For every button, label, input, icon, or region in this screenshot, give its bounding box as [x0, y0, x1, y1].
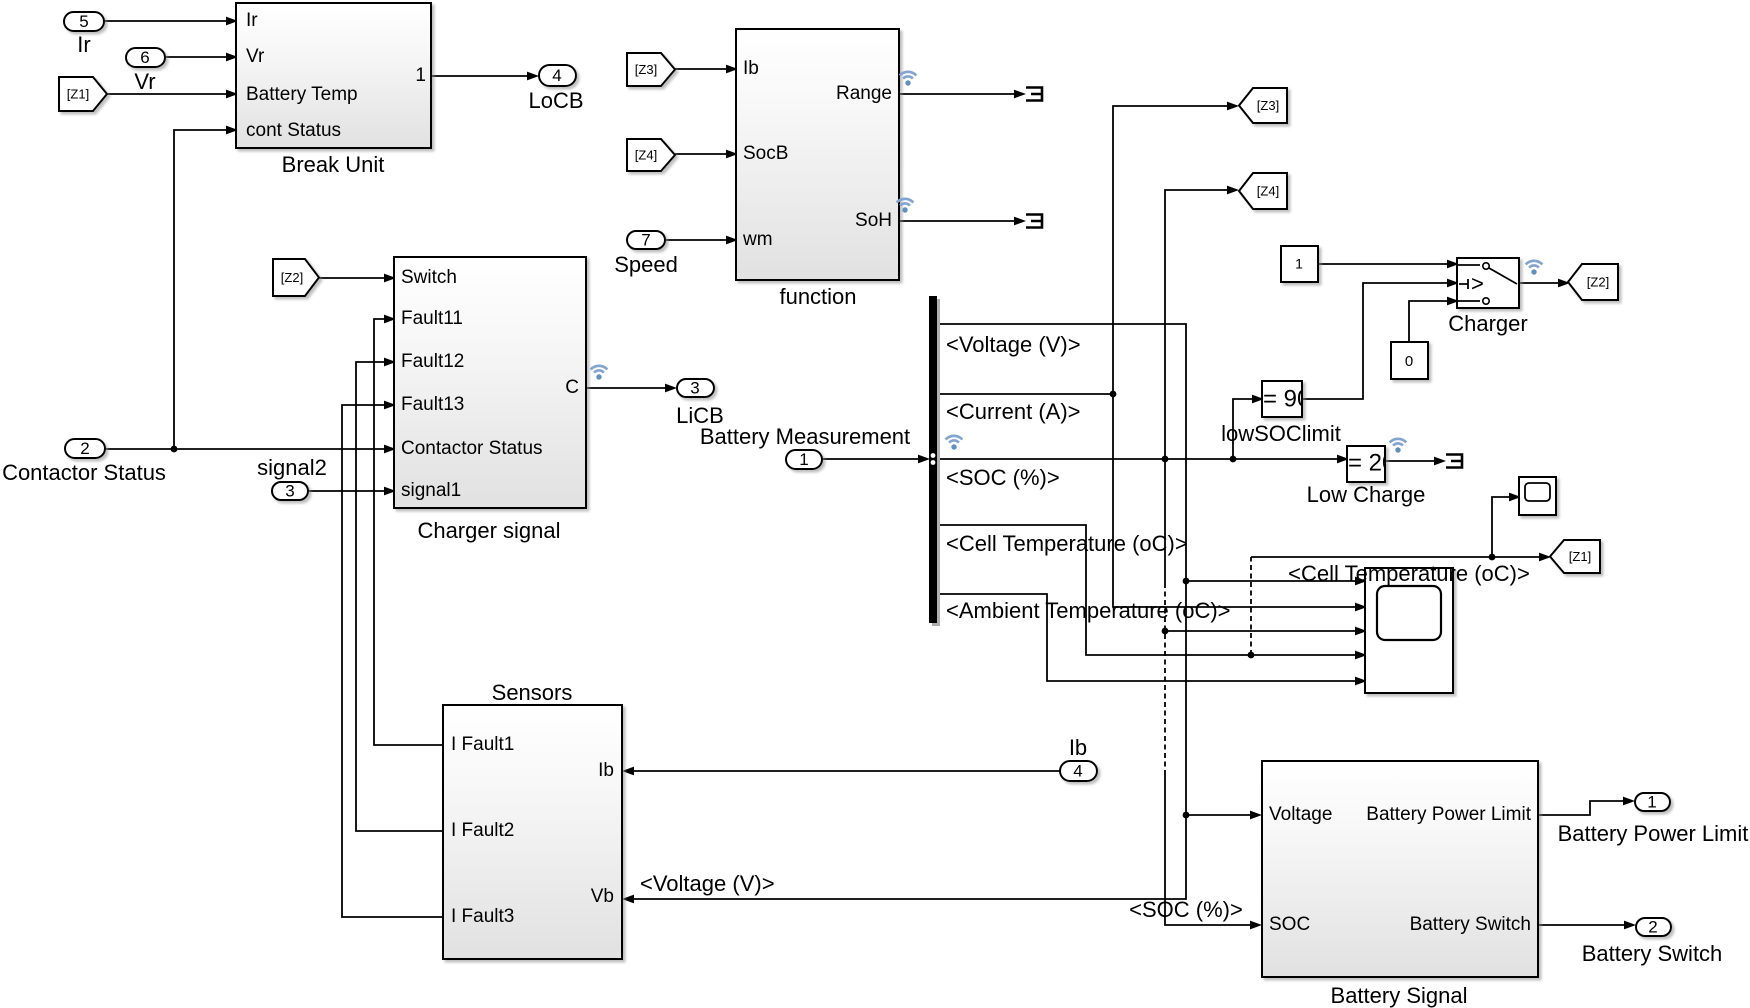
svg-text:5: 5	[79, 12, 88, 31]
svg-text:1: 1	[415, 65, 426, 86]
svg-text:I Fault1: I Fault1	[451, 734, 514, 755]
svg-text:<Current (A)>: <Current (A)>	[946, 399, 1081, 424]
logging badge function Range	[900, 72, 917, 86]
goto tag [Z1]	[1550, 540, 1600, 573]
logging badge Low Charge	[1390, 439, 1407, 453]
wire From[Z3] to function Ib	[675, 65, 738, 74]
svg-text:signal2: signal2	[257, 455, 327, 480]
wire Low Charge output to terminator	[1385, 457, 1446, 466]
compare block Low Charge	[1307, 446, 1426, 507]
svg-text:Ir: Ir	[246, 10, 258, 31]
wire inport5 to Break Unit Ir	[104, 17, 238, 26]
svg-text:[Z2]: [Z2]	[1587, 274, 1609, 289]
svg-text:Charger signal: Charger signal	[417, 518, 560, 543]
wire lowSOClimit output to Charger switch input2	[1302, 279, 1459, 399]
svg-text:[Z1]: [Z1]	[1569, 549, 1591, 564]
wire SOC riser to Goto[Z4]	[1165, 186, 1239, 459]
wire From[Z4] to function SocB	[675, 150, 738, 159]
svg-text:Contactor Status: Contactor Status	[2, 460, 166, 485]
node junction SOC-Z4	[1162, 456, 1169, 463]
svg-text:1: 1	[799, 450, 808, 469]
wire bus SOC main line to Low Charge	[939, 455, 1349, 464]
svg-text:Voltage: Voltage	[1269, 804, 1332, 825]
inport 3 signal2	[257, 455, 327, 500]
wire Break Unit out to outport4 LoCB	[432, 72, 539, 81]
wire bus Cell Temperature to scope input4	[939, 525, 1367, 659]
node junction SOC-lowSOClimit	[1230, 456, 1237, 463]
svg-text:[Z3]: [Z3]	[1257, 98, 1279, 113]
node junction cont Status	[171, 446, 178, 453]
svg-text:4: 4	[1073, 761, 1082, 780]
svg-text:Ib: Ib	[1069, 735, 1087, 760]
constant block 0	[1391, 342, 1428, 379]
svg-text:SOC: SOC	[1269, 914, 1310, 935]
wire From[Z1] to Break Unit Battery Temp	[107, 90, 238, 99]
logging badge Charger signal C	[591, 366, 608, 380]
svg-text:<Voltage (V)>: <Voltage (V)>	[640, 871, 775, 896]
wire constant1 to Charger switch input1	[1318, 260, 1459, 269]
svg-text:C: C	[565, 377, 579, 398]
subsystem Break Unit	[236, 3, 431, 177]
switch block Charger	[1448, 258, 1527, 336]
svg-text:Switch: Switch	[401, 267, 457, 288]
svg-text:7: 7	[641, 230, 650, 249]
svg-text:[Z4]: [Z4]	[1257, 183, 1279, 198]
svg-text:LoCB: LoCB	[528, 88, 583, 113]
logging badge Charger switch	[1526, 261, 1543, 275]
svg-text:3: 3	[690, 378, 699, 397]
svg-text:SoH: SoH	[855, 210, 892, 231]
inport 1 Battery Measurement	[700, 424, 910, 469]
svg-text:2: 2	[80, 439, 89, 458]
svg-text:cont Status: cont Status	[246, 120, 341, 141]
svg-text:Ir: Ir	[77, 32, 90, 57]
goto tag [Z3]	[1239, 88, 1287, 123]
svg-text:Vb: Vb	[591, 886, 614, 907]
svg-text:1: 1	[1647, 792, 1656, 811]
svg-text:Battery Power Limit: Battery Power Limit	[1558, 821, 1749, 846]
svg-text:Fault12: Fault12	[401, 351, 464, 372]
svg-text:Battery Measurement: Battery Measurement	[700, 424, 910, 449]
svg-text:Battery Temp: Battery Temp	[246, 84, 358, 105]
svg-text:Low Charge: Low Charge	[1307, 482, 1426, 507]
scope small	[1519, 477, 1556, 515]
bus selector Battery Measurement	[929, 296, 940, 626]
inport 4 Ib	[1060, 735, 1097, 781]
from tag [Z4]	[627, 139, 675, 171]
goto tag [Z2]	[1568, 264, 1618, 300]
from tag [Z3]	[627, 53, 675, 86]
wire inport3 to Charger signal signal1	[308, 487, 396, 496]
svg-text:Fault13: Fault13	[401, 394, 464, 415]
inport 5 Ir	[64, 12, 104, 57]
logging badge function SoH	[897, 199, 914, 213]
inport 6 Vr	[126, 48, 165, 94]
svg-text:<Voltage (V)>: <Voltage (V)>	[946, 332, 1081, 357]
svg-text:0: 0	[1405, 353, 1413, 370]
node junction CellTemp-smallscope	[1489, 554, 1496, 561]
inport 7 Speed	[614, 230, 678, 277]
svg-text:SocB: SocB	[743, 143, 788, 164]
svg-text:4: 4	[552, 66, 561, 85]
node junction CellTemp-scope	[1248, 652, 1255, 659]
svg-text:Range: Range	[836, 83, 892, 104]
svg-text:function: function	[779, 284, 856, 309]
svg-text:1: 1	[1295, 256, 1303, 272]
svg-text:3: 3	[285, 481, 294, 500]
wire Battery Signal Battery Power Limit to outport1	[1539, 797, 1635, 815]
svg-text:= 20: = 20	[1348, 449, 1395, 476]
terminator Range	[1026, 88, 1042, 101]
svg-text:signal1: signal1	[401, 480, 461, 501]
wire inport4 Ib to Sensors Ib	[622, 767, 1060, 776]
svg-text:[Z1]: [Z1]	[67, 86, 89, 101]
wire From[Z2] to Charger signal Switch	[319, 274, 396, 283]
svg-text:[Z2]: [Z2]	[281, 270, 303, 285]
svg-text:Sensors: Sensors	[492, 680, 573, 705]
svg-text:<Cell Temperature (oC)>: <Cell Temperature (oC)>	[946, 531, 1188, 556]
wire bus Ambient Temperature to scope input5	[939, 594, 1367, 685]
svg-text:<Ambient Temperature (oC)>: <Ambient Temperature (oC)>	[946, 598, 1231, 623]
outport 2 Battery Switch	[1582, 917, 1723, 966]
svg-text:Vr: Vr	[134, 69, 155, 94]
wire SOC drop to scope and Battery Signal SOC	[1165, 459, 1367, 929]
svg-text:<SOC (%)>: <SOC (%)>	[946, 465, 1060, 490]
inport 2 Contactor Status	[2, 439, 166, 485]
wire SOC tap to lowSOClimit input	[1233, 395, 1264, 459]
subsystem function	[736, 29, 899, 309]
wire inport1 Battery Measurement to Bus Selector	[822, 455, 930, 464]
wire Cell Temperature branch to Goto[Z1] and small scope	[1251, 493, 1551, 655]
node junction SOC-scope	[1162, 628, 1169, 635]
wire inport2 Contactor Status to Charger signal	[105, 445, 396, 454]
svg-text:6: 6	[140, 48, 149, 67]
logging badge bus SOC	[946, 436, 963, 450]
svg-text:Break Unit: Break Unit	[282, 152, 385, 177]
svg-text:>: >	[1471, 271, 1484, 296]
wire function Range to terminator	[899, 90, 1026, 99]
svg-text:wm: wm	[742, 229, 773, 250]
svg-text:Battery Power Limit: Battery Power Limit	[1366, 804, 1531, 825]
wire inport6 to Break Unit Vr	[165, 53, 238, 62]
wire Sensors I Fault3 to Charger signal Fault13	[342, 401, 443, 917]
outport 3 LiCB	[676, 378, 724, 428]
compare block lowSOClimit	[1221, 381, 1341, 446]
terminator SoH	[1026, 215, 1042, 228]
svg-text:Charger: Charger	[1448, 311, 1527, 336]
outport 4 LoCB	[528, 65, 583, 113]
svg-text:Contactor Status: Contactor Status	[401, 438, 543, 459]
wire constant0 to Charger switch input3	[1409, 297, 1459, 342]
from tag [Z1]	[59, 77, 107, 111]
wire inport7 Speed to function wm	[665, 236, 738, 245]
svg-text:Battery Switch: Battery Switch	[1582, 941, 1723, 966]
subsystem Sensors	[443, 680, 622, 959]
goto tag [Z4]	[1239, 173, 1287, 209]
svg-text:Ib: Ib	[743, 58, 759, 79]
node junction Current-Z3	[1110, 391, 1117, 398]
constant block 1	[1281, 246, 1318, 282]
svg-text:Fault11: Fault11	[401, 308, 463, 329]
svg-text:2: 2	[1648, 917, 1657, 936]
scope Cell Temperature	[1365, 568, 1453, 693]
svg-text:[Z3]: [Z3]	[635, 62, 657, 77]
svg-text:<SOC (%)>: <SOC (%)>	[1129, 897, 1243, 922]
svg-text:Speed: Speed	[614, 252, 678, 277]
wire Sensors I Fault1 to Charger signal Fault11	[374, 315, 443, 745]
subsystem Charger signal	[394, 257, 586, 543]
wire Sensors I Fault2 to Charger signal Fault12	[356, 358, 443, 831]
wire bus Current branch to Goto[Z3] and scope	[939, 102, 1367, 612]
node junction Voltage-scope	[1183, 578, 1190, 585]
svg-text:<Cell Temperature (oC)>: <Cell Temperature (oC)>	[1288, 561, 1530, 586]
svg-text:[Z4]: [Z4]	[635, 147, 657, 162]
svg-text:Battery Switch: Battery Switch	[1410, 914, 1531, 935]
svg-text:Vr: Vr	[246, 46, 265, 67]
svg-text:Ib: Ib	[598, 760, 614, 781]
subsystem Battery Signal	[1262, 761, 1538, 1008]
outport 1 Battery Power Limit	[1558, 792, 1749, 846]
wire function SoH to terminator	[899, 217, 1026, 226]
svg-text:I Fault2: I Fault2	[451, 820, 514, 841]
node junction Voltage-BatterySignal	[1183, 812, 1190, 819]
wire bus Voltage branch	[622, 324, 1367, 903]
svg-text:lowSOClimit: lowSOClimit	[1221, 421, 1341, 446]
wire Charger signal C to outport3 LiCB	[586, 384, 677, 393]
svg-text:I Fault3: I Fault3	[451, 906, 514, 927]
wire Charger switch output to Goto[Z2]	[1520, 279, 1570, 288]
from tag [Z2]	[273, 259, 319, 296]
terminator Low Charge	[1446, 455, 1462, 468]
wire cont Status riser	[174, 126, 238, 449]
wire Battery Signal Battery Switch to outport2	[1539, 921, 1636, 930]
svg-text:Battery Signal: Battery Signal	[1331, 983, 1468, 1008]
